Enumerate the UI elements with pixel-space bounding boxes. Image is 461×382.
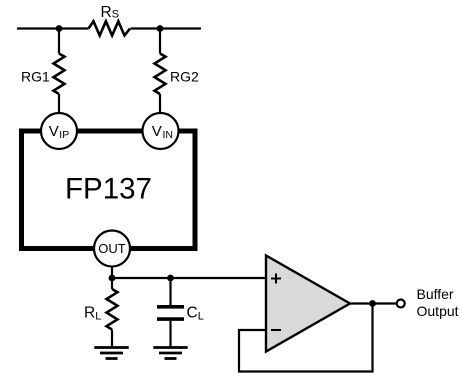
wire RL top (111, 278, 113, 289)
wire RG2 top (159, 29, 161, 54)
svg-text:V: V (152, 123, 162, 140)
amplifier block FP137 (22, 131, 196, 249)
wire top rail right segment (131, 27, 202, 29)
wire top rail left segment (17, 27, 89, 29)
wire CL bottom (169, 321, 171, 347)
svg-text:Output: Output (417, 303, 459, 319)
node junction left (56, 25, 63, 32)
terminal buffer output (397, 300, 405, 308)
wire op-amp output (350, 302, 397, 304)
wire RG2 bottom (159, 94, 161, 114)
svg-text:IN: IN (163, 129, 174, 141)
pin VIP (41, 113, 77, 149)
resistor RG1 (54, 54, 65, 95)
resistor RL (107, 289, 118, 330)
svg-text:FP137: FP137 (65, 173, 152, 206)
svg-text:OUT: OUT (98, 241, 126, 256)
op-amp plus input marking (271, 274, 281, 284)
capacitor CL (157, 305, 184, 309)
svg-text:Buffer: Buffer (417, 286, 454, 302)
wire RL bottom (111, 330, 113, 348)
ground CL (153, 348, 187, 359)
op-amp U1 (266, 256, 350, 352)
wire RG1 top (58, 29, 60, 54)
op-amp minus input marking (271, 329, 281, 331)
resistor RG2 (155, 54, 166, 95)
wire OUT down (111, 267, 113, 279)
wire RG1 bottom (58, 94, 60, 114)
node junction right (157, 25, 164, 32)
svg-text:RG2: RG2 (170, 68, 199, 84)
wire output bus (112, 277, 266, 279)
wire feedback loop (239, 304, 373, 372)
pin OUT (94, 231, 130, 267)
resistor RS (89, 21, 131, 35)
svg-text:RG1: RG1 (21, 68, 50, 84)
ground RL (94, 348, 128, 359)
pin VIN (143, 113, 179, 149)
node OUT junction (109, 275, 116, 282)
wire CL top (169, 278, 171, 305)
node output junction (369, 300, 376, 307)
svg-text:V: V (49, 123, 59, 140)
svg-text:IP: IP (59, 129, 69, 141)
node CL junction (167, 275, 174, 282)
